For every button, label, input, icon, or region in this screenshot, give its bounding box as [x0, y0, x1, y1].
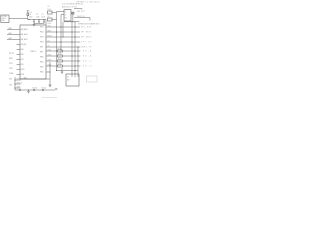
svg-text:PA9: PA9 — [40, 51, 43, 54]
svg-text:SPI_SCK: SPI_SCK — [81, 27, 92, 29]
wire LED1 net — [46, 50, 58, 52]
wire — [61, 14, 64, 16]
svg-text:AMS1117-3.3 SOT: AMS1117-3.3 SOT — [62, 5, 77, 8]
svg-text:NRST: NRST — [9, 58, 13, 60]
svg-text:PA1_ADC1: PA1_ADC1 — [21, 33, 28, 36]
pin stub — [15, 87, 21, 89]
pin 16 stub — [17, 54, 21, 56]
svg-text:R2 1k: R2 1k — [58, 53, 62, 55]
svg-text:C5: C5 — [48, 6, 50, 8]
svg-text:AIN1: AIN1 — [9, 32, 13, 35]
capacitor C2 — [36, 14, 40, 24]
svg-text:C6: C6 — [48, 16, 50, 18]
svg-text:AIN0: AIN0 — [9, 27, 13, 30]
svg-text:PA11: PA11 — [40, 61, 44, 64]
connector J1 — [1, 15, 9, 23]
svg-text:PA12: PA12 — [40, 66, 44, 69]
wire — [52, 12, 57, 14]
bus x78 — [77, 47, 79, 77]
wire — [57, 70, 79, 72]
pin 17 stub — [17, 59, 21, 61]
svg-text:PB1: PB1 — [21, 59, 24, 61]
regulator U2 — [64, 10, 71, 22]
pin stub — [15, 79, 21, 81]
power flag VCC — [27, 11, 29, 13]
svg-text:PA15: PA15 — [40, 71, 44, 74]
svg-text:CS: CS — [48, 40, 50, 42]
svg-text:SCK: SCK — [48, 25, 51, 27]
U1 right pin names — [40, 27, 44, 74]
ground — [61, 68, 64, 74]
pin 19 stub — [17, 69, 21, 71]
svg-text:SPI_MOSI: SPI_MOSI — [81, 37, 92, 39]
svg-text:VSSA: VSSA — [9, 72, 13, 75]
svg-text:C3: C3 — [41, 14, 43, 16]
wire MISO — [46, 31, 80, 33]
svg-text:PA10: PA10 — [40, 56, 44, 59]
node dots on matrix — [60, 26, 61, 27]
svg-text:PB2: PB2 — [21, 64, 24, 66]
svg-text:C1: C1 — [29, 14, 31, 16]
pin 20 stub — [17, 74, 21, 76]
pin 14 stub — [17, 44, 21, 46]
node junction — [28, 89, 29, 90]
svg-text:VBAT IN: VBAT IN — [77, 15, 85, 18]
title block line — [42, 97, 57, 99]
op-amp U1 main MCU box — [20, 25, 46, 79]
svg-text:LED_B: LED_B — [81, 56, 92, 58]
svg-text:EXT: EXT — [67, 80, 70, 82]
svg-text:AIN2: AIN2 — [9, 37, 13, 40]
wire LED2 net — [46, 55, 58, 57]
pin 18 stub — [17, 64, 21, 66]
no-connect X — [55, 88, 57, 90]
svg-text:PA4: PA4 — [21, 48, 24, 51]
svg-text:3V3 OUT: 3V3 OUT — [77, 11, 85, 13]
wire — [72, 14, 74, 21]
wire — [63, 55, 81, 57]
capacitor C8 — [32, 88, 37, 92]
ground — [49, 85, 52, 87]
node — [71, 21, 72, 22]
svg-text:OSC2: OSC2 — [9, 68, 13, 70]
wire LED4 net — [46, 65, 58, 67]
svg-text:PB15: PB15 — [40, 42, 44, 44]
pin stub — [15, 83, 21, 85]
svg-text:BOOT0: BOOT0 — [9, 53, 14, 55]
wire — [9, 18, 28, 20]
svg-text:SPI_MISO: SPI_MISO — [81, 32, 92, 34]
svg-text:EXPANSION HEADER NET: EXPANSION HEADER NET — [78, 23, 100, 26]
svg-text:UART_TX: UART_TX — [81, 46, 92, 49]
svg-text:100n: 100n — [36, 16, 40, 18]
svg-text:MOSI: MOSI — [48, 35, 52, 37]
bus x72 — [71, 22, 73, 77]
wire TX — [46, 46, 80, 48]
wire VBAT — [74, 18, 90, 21]
bus x63 — [62, 22, 64, 37]
resistor R3 — [58, 58, 63, 62]
wire MOSI — [46, 36, 80, 38]
ground — [33, 23, 36, 26]
svg-text:VSS: VSS — [9, 85, 12, 87]
svg-text:C2: C2 — [36, 14, 38, 16]
fuse F1 — [27, 12, 32, 15]
wire 3V3 out — [74, 8, 82, 11]
svg-text:VSS: VSS — [9, 79, 12, 81]
node — [14, 79, 15, 80]
svg-text:100n: 100n — [48, 23, 52, 25]
svg-text:PB11: PB11 — [21, 74, 25, 76]
wire SCK — [46, 26, 80, 28]
svg-text:TX: TX — [48, 45, 50, 47]
bus x56.5 — [56, 12, 58, 71]
capacitor C5 — [48, 6, 53, 14]
wire — [57, 11, 65, 13]
wire — [63, 50, 81, 52]
wire — [63, 60, 81, 62]
capacitor C3 — [41, 14, 45, 24]
svg-text:PB10: PB10 — [21, 69, 25, 71]
svg-text:100n: 100n — [29, 16, 33, 18]
svg-text:LED_A: LED_A — [81, 50, 92, 53]
svg-text:PB0: PB0 — [21, 54, 24, 56]
svg-text:J1 PWR: J1 PWR — [1, 16, 7, 18]
wire — [63, 65, 81, 67]
svg-text:R3 1k: R3 1k — [58, 58, 62, 60]
svg-text:G: G — [65, 15, 67, 17]
svg-text:VIN 5V: VIN 5V — [1, 18, 6, 20]
svg-text:VO: VO — [65, 18, 68, 20]
capacitor C9 — [41, 88, 46, 92]
pin 15 stub — [17, 49, 21, 51]
ground — [27, 90, 30, 93]
svg-text:LED_D: LED_D — [81, 66, 92, 68]
wire PA1 — [7, 34, 20, 36]
svg-text:R4 1k: R4 1k — [58, 63, 62, 65]
capacitor C4 — [19, 89, 20, 91]
svg-text:HW REV 1.2 2019-06-14: HW REV 1.2 2019-06-14 — [77, 1, 100, 3]
svg-text:10uF: 10uF — [48, 9, 52, 11]
svg-text:J3: J3 — [67, 77, 69, 79]
svg-text:SWDIO: SWDIO — [17, 78, 23, 80]
resistor R2 — [58, 53, 63, 57]
svg-text:SPI_CS: SPI_CS — [81, 42, 92, 44]
svg-text:SWCLK: SWCLK — [17, 82, 22, 84]
wire bottom — [20, 62, 50, 85]
VCC rail — [28, 20, 46, 26]
svg-text:VI: VI — [65, 12, 67, 14]
resistor R4 — [58, 63, 63, 67]
pin 33 stub — [46, 71, 50, 73]
node VCC junctions — [28, 19, 29, 20]
wire — [70, 12, 73, 14]
svg-text:PA0_ADC0: PA0_ADC0 — [21, 28, 28, 31]
bus x75 — [74, 22, 76, 77]
svg-text:LED3: LED3 — [48, 59, 52, 61]
crystal Y1 — [72, 12, 74, 14]
svg-text:PA2_ADC2: PA2_ADC2 — [21, 38, 28, 41]
wire — [34, 22, 44, 24]
wire bottom of U2 — [64, 21, 80, 23]
svg-text:VCAP 22: VCAP 22 — [30, 50, 36, 53]
svg-text:OSC1: OSC1 — [9, 63, 13, 65]
node junction — [49, 71, 50, 72]
capacitor C6 — [48, 16, 53, 25]
svg-text:GND: GND — [1, 20, 5, 22]
capacitor C1 — [29, 14, 35, 24]
wire — [15, 89, 55, 91]
svg-text:PB13: PB13 — [40, 32, 44, 34]
svg-text:LED2: LED2 — [48, 54, 52, 56]
svg-text:10uF: 10uF — [41, 16, 45, 18]
svg-text:PA3_AD: PA3_AD — [21, 43, 27, 46]
wire — [52, 19, 57, 21]
svg-text:LED4: LED4 — [48, 64, 52, 66]
wire PA0 — [7, 29, 20, 31]
svg-text:LED1: LED1 — [48, 49, 52, 51]
title block frame — [87, 76, 98, 82]
bus x61 — [60, 15, 62, 53]
connector J2 bus — [14, 77, 16, 90]
wire LED3 net — [46, 60, 58, 62]
svg-text:PA8: PA8 — [40, 46, 43, 49]
wire PA2 — [7, 39, 20, 41]
svg-text:PB12: PB12 — [40, 27, 44, 29]
svg-text:LED_C: LED_C — [81, 61, 92, 63]
connector J3 box — [66, 74, 79, 86]
wire CS — [46, 41, 80, 43]
U1 left pin names — [21, 28, 37, 79]
svg-text:PB14: PB14 — [40, 37, 44, 39]
resistor R1 — [58, 48, 63, 52]
wire — [27, 16, 29, 20]
